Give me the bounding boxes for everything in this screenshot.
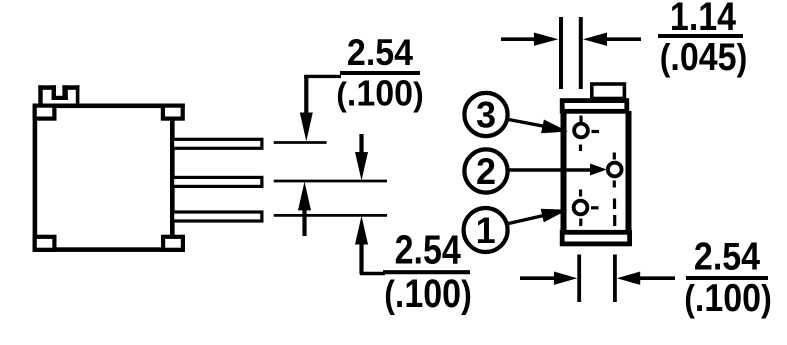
leader arrow from 1 to pin 1 xyxy=(509,209,568,224)
bottom edge extension xyxy=(172,247,185,252)
svg-text:2.54: 2.54 xyxy=(694,234,761,278)
svg-text:1.14: 1.14 xyxy=(670,0,737,39)
dim arrow up to lead3 line xyxy=(355,216,385,274)
svg-text:1: 1 xyxy=(476,210,496,251)
corner square bottom-left xyxy=(35,237,55,250)
side view left wall xyxy=(561,111,567,232)
dim arrow down to lead2 line xyxy=(355,134,368,181)
side view top tab xyxy=(592,84,625,99)
corner square top-left xyxy=(35,106,55,119)
svg-text:(.100): (.100) xyxy=(336,74,423,114)
lead 2 (middle pin) xyxy=(173,177,262,186)
extension line lead3 xyxy=(274,214,387,217)
svg-text:2: 2 xyxy=(476,151,496,192)
dim 2.54 bottom extension line right xyxy=(613,255,617,303)
dim 2.54 bottom right arrow xyxy=(617,272,675,285)
side view bottom cap xyxy=(562,232,629,244)
side view top cap xyxy=(562,101,627,112)
side view right wall xyxy=(626,111,632,232)
centerline dashes pin2 xyxy=(613,153,617,227)
svg-text:(.100): (.100) xyxy=(684,276,771,320)
pin 1 hole xyxy=(574,201,588,215)
svg-text:3: 3 xyxy=(476,94,496,135)
svg-text:(.100): (.100) xyxy=(384,270,471,315)
dim 2.54 bottom extension line left xyxy=(577,255,581,303)
corner square top-right xyxy=(163,106,183,119)
leader arrow from 3 to pin 3 xyxy=(509,120,569,134)
dim 2.54 bottom left arrow xyxy=(520,272,577,285)
pin 3 hole xyxy=(574,124,588,138)
extension line lead1 xyxy=(274,141,327,144)
svg-text:2.54: 2.54 xyxy=(347,32,413,74)
circled pin number 3 xyxy=(464,93,507,136)
dim 1.14 extension line left xyxy=(559,17,563,89)
circled pin number 1 xyxy=(464,208,508,252)
dim arrow down to lead1 line xyxy=(300,75,341,141)
adjustment tab on top of body xyxy=(38,85,79,103)
dimension text 2.54/(.100) lower xyxy=(383,227,472,316)
dim 1.14 right arrow xyxy=(583,33,641,46)
svg-text:(.045): (.045) xyxy=(660,35,747,79)
trimpot body front view outline xyxy=(35,106,172,250)
circled pin number 2 xyxy=(464,149,507,192)
dimension text 2.54/(.100) upper xyxy=(336,32,423,114)
leader arrow from 2 to pin 2 xyxy=(509,164,607,176)
svg-text:2.54: 2.54 xyxy=(395,227,461,273)
lead 3 (bottom pin) xyxy=(173,212,262,221)
centerline dashes pin1 xyxy=(581,190,599,227)
extension line lead2 xyxy=(274,180,387,183)
dim arrow up to lead2 line xyxy=(298,182,311,237)
corner square bottom-right xyxy=(163,237,183,250)
dim 1.14 extension line right xyxy=(579,17,583,89)
pin 2 hole xyxy=(608,163,622,177)
dim 1.14 left arrow xyxy=(501,33,558,46)
centerline dashes pin3 xyxy=(581,116,600,152)
top edge extension xyxy=(172,104,185,109)
dimension text 2.54/(.100) bottom right xyxy=(684,234,771,319)
dimension text 1.14/(.045) xyxy=(658,0,747,79)
lead 1 (top pin) xyxy=(173,139,262,148)
